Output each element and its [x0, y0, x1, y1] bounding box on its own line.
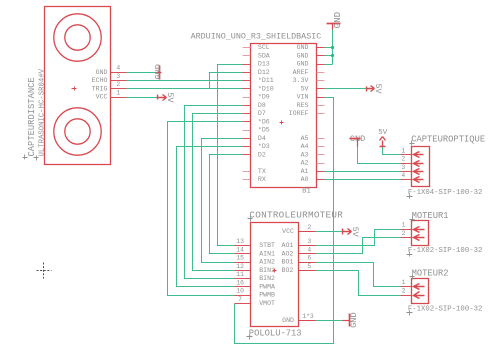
svg-text:ULTRASONIC-HC-SR04#V: ULTRASONIC-HC-SR04#V [38, 68, 46, 156]
controller right pins AO1 3, AO2 4, BO1 6, BO2 5 [282, 238, 316, 274]
svg-text:1: 1 [402, 279, 406, 286]
svg-text:16: 16 [236, 279, 244, 286]
MOTEUR1 pins 1,2 [401, 222, 425, 241]
svg-text:POLOLU-713: POLOLU-713 [249, 328, 302, 338]
wire BO2 to MOTEUR2 pin2 [316, 271, 401, 296]
wire BO1 to MOTEUR2 pin1 [316, 263, 401, 287]
sheet origin cross [37, 263, 52, 279]
svg-text:GND: GND [282, 317, 294, 324]
motor connector MOTEUR1 body [412, 221, 429, 246]
svg-text:D8: D8 [258, 102, 266, 109]
ground symbol at sensor GND [153, 64, 163, 79]
svg-text:5V: 5V [350, 227, 360, 237]
svg-text:GND: GND [332, 11, 343, 28]
svg-text:GND: GND [297, 61, 309, 68]
svg-text:5V: 5V [301, 85, 309, 92]
controller VCC pin 2 [282, 224, 315, 235]
svg-text:AO2: AO2 [282, 250, 294, 257]
sensor name CAPTEURDISTANCE [23, 77, 37, 159]
wire D8 to BIN2 [185, 106, 243, 279]
svg-text:1: 1 [402, 222, 406, 229]
5V supply up-arrow above optical connector [378, 129, 388, 147]
svg-text:TX: TX [258, 168, 266, 175]
Arduino right pin stubs [317, 47, 325, 49]
5V supply arrow at Arduino [367, 84, 383, 94]
optical connector pins 1-4 [401, 147, 424, 182]
svg-text:2: 2 [401, 156, 405, 163]
svg-text:2: 2 [116, 81, 120, 88]
sensor origin cross [72, 87, 77, 91]
ground symbol above Arduino [327, 11, 343, 29]
optical sensor connector CAPTEUROPTIQUE body [412, 147, 430, 187]
svg-text:PWMA: PWMA [259, 283, 275, 290]
wire VIN to VMOT [235, 98, 334, 344]
svg-text:A2: A2 [301, 160, 309, 167]
svg-text:RX: RX [258, 176, 266, 183]
controller origin cross [273, 269, 277, 273]
svg-text:5V: 5V [373, 84, 383, 94]
svg-text:*D6: *D6 [258, 118, 270, 125]
svg-text:12: 12 [236, 263, 244, 270]
sensor pin name labels [92, 69, 108, 101]
svg-text:D7: D7 [258, 110, 266, 117]
svg-text:1: 1 [401, 147, 405, 154]
ground symbol above optical connector [350, 134, 366, 146]
svg-text:2: 2 [307, 224, 311, 231]
svg-text:CAPTEURDISTANCE: CAPTEURDISTANCE [27, 77, 37, 156]
svg-text:4: 4 [401, 172, 405, 179]
wire sensor GND pin4 [127, 72, 156, 74]
controller left pins 13,14,15,12,11,16,10,7 [235, 238, 276, 307]
svg-text:VCC: VCC [282, 228, 294, 235]
svg-text:F-1X02-SIP-100-32: F-1X02-SIP-100-32 [408, 306, 482, 314]
wire D4 to AIN2 [202, 139, 243, 263]
optical connector name CAPTEUROPTIQUE [410, 135, 486, 146]
junction dot GND row1 [331, 46, 334, 49]
svg-text:D12: D12 [258, 69, 270, 76]
svg-text:7: 7 [238, 296, 242, 303]
MOTEUR2 value F-1X02-SIP-100-32 [407, 306, 483, 316]
wire Arduino GND pins to ground [325, 30, 333, 65]
wire D12 jog down to TRIG [210, 73, 243, 89]
controller name anchor cross [248, 217, 253, 222]
svg-text:10: 10 [236, 288, 244, 295]
controller value POLOLU-713 [247, 328, 302, 339]
Arduino board B1 body [251, 44, 317, 188]
MOTEUR2 pins 1,2 [401, 279, 425, 299]
svg-text:2: 2 [402, 230, 406, 237]
ultrasonic sensor CAPTEURDISTANCE body [45, 7, 111, 165]
svg-text:PWMB: PWMB [259, 292, 275, 299]
motor controller POLOLU-713 body [251, 223, 299, 327]
svg-text:AIN1: AIN1 [259, 250, 275, 257]
wire D2 to AIN1 [210, 155, 243, 254]
svg-text:AO1: AO1 [282, 242, 294, 249]
svg-text:14: 14 [236, 246, 244, 253]
svg-text:2: 2 [402, 287, 406, 294]
wire AO2 to MOTEUR1 pin2 [316, 238, 401, 254]
wire ECHO to Arduino *D11 [127, 80, 243, 82]
svg-text:GND: GND [96, 69, 108, 76]
wire A1 to optical pin3 [325, 171, 401, 173]
svg-text:5: 5 [307, 263, 311, 270]
svg-text:A4: A4 [301, 143, 309, 150]
svg-text:B1: B1 [302, 187, 311, 195]
svg-text:VCC: VCC [96, 94, 108, 101]
svg-text:3: 3 [307, 238, 311, 245]
svg-text:GND: GND [297, 52, 309, 59]
svg-text:3.3V: 3.3V [293, 77, 309, 84]
svg-text:BO2: BO2 [282, 267, 294, 274]
MOTEUR1 value F-1X02-SIP-100-32 [407, 247, 483, 257]
sensor pins 4,3,2,1 [111, 65, 127, 98]
svg-text:*D11: *D11 [258, 77, 274, 84]
wire D13 to STBT [218, 65, 243, 246]
Arduino right pin names [289, 44, 309, 183]
optical connector value F-1X04-SIP-100-32 [407, 189, 483, 199]
svg-text:VIN: VIN [297, 94, 309, 101]
svg-text:3: 3 [116, 73, 120, 80]
svg-text:GND: GND [297, 44, 309, 51]
motor connector MOTEUR2 body [412, 279, 429, 304]
wire D7 to BIN1 [193, 114, 243, 271]
svg-text:*D9: *D9 [258, 94, 270, 101]
svg-text:CONTROLEURMOTEUR: CONTROLEURMOTEUR [249, 210, 343, 221]
svg-text:*D3: *D3 [258, 143, 270, 150]
svg-text:GND: GND [349, 312, 359, 327]
wire sensor VCC pin1 [127, 97, 158, 99]
wire controller GND [316, 320, 343, 322]
wire *D6 to PWMB [168, 122, 243, 296]
sensor value ULTRASONIC-HC-SR04#V [34, 68, 47, 160]
svg-text:A5: A5 [301, 135, 309, 142]
Arduino left pin names [258, 44, 274, 183]
svg-text:ECHO: ECHO [92, 77, 108, 84]
svg-text:ARDUINO_UNO_R3_SHIELDBASIC: ARDUINO_UNO_R3_SHIELDBASIC [191, 32, 322, 42]
svg-text:A3: A3 [301, 151, 309, 158]
svg-text:MOTEUR1: MOTEUR1 [412, 211, 449, 221]
svg-text:A1: A1 [301, 168, 309, 175]
svg-text:D4: D4 [258, 135, 266, 142]
svg-text:MOTEUR2: MOTEUR2 [412, 269, 449, 279]
Arduino origin cross [280, 121, 284, 125]
svg-text:15: 15 [236, 255, 244, 262]
svg-text:VMOT: VMOT [259, 300, 275, 307]
ground symbol at controller GND [343, 312, 360, 327]
wire controller VCC [316, 231, 343, 233]
junction dot GND row2 [331, 54, 334, 57]
svg-text:RES: RES [297, 102, 309, 109]
svg-text:A0: A0 [301, 176, 309, 183]
svg-text:GND: GND [153, 64, 163, 79]
svg-text:4: 4 [307, 246, 311, 253]
wire 5V to optical pin1 [383, 147, 401, 155]
5V supply arrow at sensor VCC [158, 92, 175, 103]
wire TRIG to Arduino *D10 [127, 88, 243, 90]
wire GND to optical pin2 [358, 147, 401, 164]
5V supply arrow at controller VCC [343, 227, 360, 237]
MOTEUR2 name [410, 269, 449, 280]
svg-text:13: 13 [236, 238, 244, 245]
svg-text:4: 4 [116, 65, 120, 72]
svg-text:11: 11 [236, 271, 244, 278]
svg-text:5V: 5V [165, 92, 175, 103]
MOTEUR1 name [410, 211, 449, 222]
svg-text:BIN2: BIN2 [259, 275, 275, 282]
svg-text:SDA: SDA [258, 52, 270, 59]
svg-text:CAPTEUROPTIQUE: CAPTEUROPTIQUE [411, 135, 485, 145]
svg-text:1*3: 1*3 [302, 313, 314, 320]
wire AO1 to MOTEUR1 pin1 [316, 230, 401, 246]
wire A0 to optical pin4 [325, 179, 401, 181]
svg-text:F-1X02-SIP-100-32: F-1X02-SIP-100-32 [408, 247, 482, 255]
svg-text:AREF: AREF [293, 69, 309, 76]
svg-text:TRIG: TRIG [92, 85, 108, 92]
svg-text:3: 3 [401, 164, 405, 171]
Arduino left pin stubs [243, 47, 251, 49]
wire *D3 to PWMA [177, 147, 243, 287]
svg-text:5V: 5V [378, 129, 388, 137]
svg-text:1: 1 [116, 89, 120, 96]
svg-text:AIN2: AIN2 [259, 259, 275, 266]
svg-text:F-1X04-SIP-100-32: F-1X04-SIP-100-32 [408, 189, 482, 197]
svg-text:STBT: STBT [259, 242, 275, 249]
svg-text:SCL: SCL [258, 44, 270, 51]
svg-text:D2: D2 [258, 151, 266, 158]
svg-text:IOREF: IOREF [289, 110, 309, 117]
svg-text:6: 6 [307, 255, 311, 262]
svg-text:*D10: *D10 [258, 85, 274, 92]
controller GND pin 1*3 [282, 313, 315, 324]
svg-text:D13: D13 [258, 61, 270, 68]
svg-text:BO1: BO1 [282, 259, 294, 266]
wire Arduino 5V pin [325, 88, 367, 90]
svg-text:*D5: *D5 [258, 127, 270, 134]
